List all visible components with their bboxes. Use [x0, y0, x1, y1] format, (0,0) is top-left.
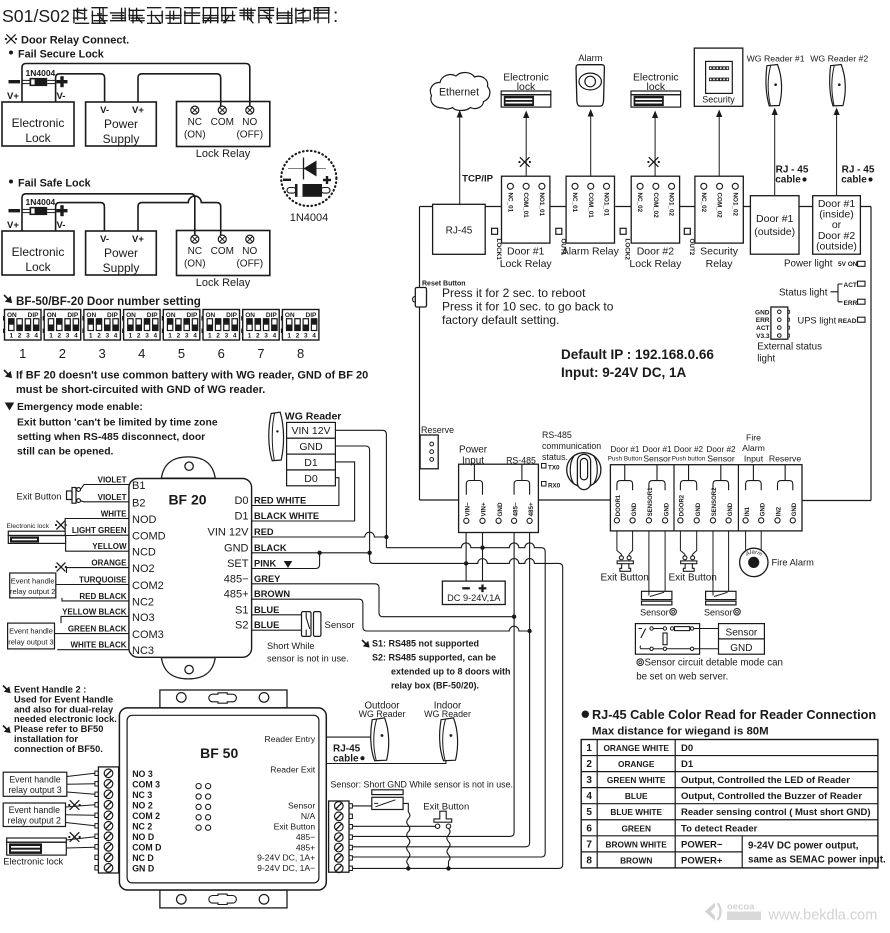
polarity minus sign — [9, 209, 21, 212]
svg-text:Alarm: Alarm — [578, 53, 602, 63]
svg-text:Electronic: Electronic — [12, 245, 65, 259]
svg-text:Lock Relay: Lock Relay — [629, 258, 682, 270]
wire 485+ brown — [252, 599, 530, 631]
svg-text:Fire: Fire — [746, 433, 761, 443]
svg-text:GREEN WHITE: GREEN WHITE — [607, 775, 666, 785]
RJ-45 cable color table — [581, 740, 878, 868]
electronic lock icon (BF50 side) — [7, 838, 67, 842]
svg-text:VIN−: VIN− — [465, 502, 472, 516]
relay terminal NC_02 — [701, 183, 707, 189]
svg-text:Sensor: Sensor — [726, 628, 758, 639]
svg-text:and also for dual-relay: and also for dual-relay — [14, 704, 114, 714]
svg-text:2: 2 — [256, 333, 260, 340]
svg-text:SET: SET — [227, 558, 249, 570]
svg-text:Emergency mode enable:: Emergency mode enable: — [17, 402, 143, 413]
svg-text:TX0: TX0 — [548, 465, 560, 472]
svg-text:NO D: NO D — [132, 832, 154, 842]
WG Reader terminal table — [287, 422, 336, 438]
RJ-45 box — [433, 204, 486, 254]
svg-text:RX0: RX0 — [548, 483, 561, 490]
svg-text:BROWN: BROWN — [254, 589, 290, 599]
svg-text:(ON): (ON) — [184, 259, 206, 270]
board indicator OUT2 — [684, 228, 690, 234]
lock relay box — [177, 102, 270, 147]
svg-text:Short While: Short While — [267, 641, 315, 651]
svg-text:D1: D1 — [234, 511, 248, 523]
svg-text:Alarm: Alarm — [742, 443, 765, 453]
junction dot SET jumper x BLACK — [317, 551, 321, 555]
svg-text:Door #2: Door #2 — [637, 246, 675, 258]
svg-text:V+: V+ — [132, 234, 144, 245]
485+ riser to BF50 — [352, 533, 529, 847]
svg-text:RJ-45 Cable Color Read for Rea: RJ-45 Cable Color Read for Reader Connec… — [592, 708, 876, 722]
svg-text:COM2: COM2 — [132, 580, 164, 592]
wire from relay to device — [590, 113, 592, 176]
wires lock to strip — [66, 837, 95, 840]
svg-text:4: 4 — [193, 333, 197, 340]
heading: Fail Secure Lock — [9, 51, 13, 55]
diode 1N4004 (inline) — [22, 208, 30, 210]
svg-text:NO: NO — [242, 246, 257, 257]
svg-text:GND: GND — [755, 309, 770, 316]
svg-text:1: 1 — [49, 333, 53, 340]
diode 1N4004 (inline) — [22, 79, 30, 81]
wire gnd pin down — [664, 531, 666, 592]
svg-text:DIP: DIP — [306, 312, 318, 319]
svg-text:Relay: Relay — [706, 258, 734, 270]
ethernet cloud — [430, 73, 490, 111]
svg-text:ORANGE: ORANGE — [618, 759, 655, 769]
svg-text:ON: ON — [86, 312, 96, 319]
power supply box — [86, 102, 157, 146]
svg-text:Fail Safe Lock: Fail Safe Lock — [18, 178, 92, 190]
sensor coil wire to ground rail — [403, 803, 408, 812]
heading: Door Relay Connect — [6, 34, 15, 43]
svg-text:NC 3: NC 3 — [132, 790, 152, 800]
svg-text:relay output 2: relay output 2 — [10, 587, 55, 596]
electronic lock icon (BF20 side) — [8, 531, 65, 535]
indoor WG reader icon — [440, 718, 458, 761]
1N4004 legend dotted circle — [281, 151, 336, 206]
svg-text:ON: ON — [7, 312, 17, 319]
svg-text:WG Reader: WG Reader — [285, 410, 342, 422]
svg-text:communication: communication — [542, 441, 601, 451]
wires output2 to strip — [66, 805, 95, 807]
reference mark above lock wires — [70, 832, 80, 842]
BF50 bottom mounting tab — [160, 890, 287, 908]
junction dot grey x 485- riser — [512, 615, 516, 619]
svg-text:1N4004: 1N4004 — [290, 212, 329, 224]
svg-text:relay box (BF-50/20).: relay box (BF-50/20). — [391, 681, 479, 691]
electronic lock icon #2 (door 2) — [631, 91, 681, 95]
svg-text:Sensor: Sensor — [704, 608, 733, 618]
svg-text:NCD: NCD — [132, 547, 156, 559]
svg-text:S2: RS485 supported, can be: S2: RS485 supported, can be — [372, 653, 496, 663]
svg-text:COM: COM — [211, 117, 234, 128]
Door #1 (outside) box — [750, 196, 799, 255]
svg-text:4: 4 — [233, 333, 237, 340]
svg-text:GREEN BLACK: GREEN BLACK — [68, 625, 127, 634]
svg-text:DIP: DIP — [186, 312, 198, 319]
svg-text:Security: Security — [700, 246, 739, 258]
svg-text:RS-485: RS-485 — [506, 456, 536, 466]
svg-text:GND: GND — [664, 502, 670, 516]
svg-text:DIP: DIP — [226, 312, 238, 319]
svg-text:Sensor: Sensor — [288, 801, 315, 811]
svg-text:485+: 485+ — [528, 502, 535, 517]
svg-text:UPS light: UPS light — [798, 316, 837, 326]
svg-text:COM: COM — [211, 246, 234, 257]
svg-text:YELLOW BLACK: YELLOW BLACK — [62, 607, 127, 616]
svg-text:2: 2 — [97, 333, 101, 340]
door sensor icon — [706, 591, 736, 599]
svg-text:485−: 485− — [224, 573, 249, 585]
exit button body — [681, 561, 697, 564]
svg-text:Output, Controlled the LED of: Output, Controlled the LED of Reader — [681, 775, 850, 786]
svg-text:(outside): (outside) — [816, 240, 857, 252]
svg-text:5V ON: 5V ON — [838, 261, 858, 268]
svg-text:485+: 485+ — [296, 842, 315, 852]
svg-text:COM 3: COM 3 — [132, 780, 160, 790]
svg-text:Power light: Power light — [784, 259, 833, 270]
svg-text:needed electronic lock.: needed electronic lock. — [14, 714, 117, 724]
RS-485 bracket wires — [514, 464, 530, 495]
wire VIN12V red + power rail to VIN+ and BF50 1A+ — [335, 430, 386, 547]
lock relay box — [177, 231, 270, 276]
svg-text:Output, Controlled the Buzzer: Output, Controlled the Buzzer of Reader — [681, 791, 862, 802]
note: S1/S2 RS485 support — [362, 640, 367, 645]
heading: Fail Safe Lock — [9, 180, 13, 184]
svg-text:RS-485: RS-485 — [542, 430, 572, 440]
svg-text:D1: D1 — [304, 457, 318, 469]
svg-text:V+: V+ — [132, 105, 144, 116]
exit button terminals — [619, 556, 623, 560]
reference mark above relay — [649, 157, 659, 167]
wire GND black + ground rail to VIN- and BF50 1A- — [335, 446, 562, 868]
svg-text:DIP: DIP — [147, 312, 159, 319]
reference mark above relay — [520, 157, 530, 167]
svg-text:B2: B2 — [132, 497, 145, 509]
polarity plus sign — [57, 80, 68, 83]
svg-text:ON: ON — [285, 312, 295, 319]
wire NC3 white black — [58, 648, 129, 651]
wire gnd pin down — [728, 531, 730, 592]
svg-text:VIN 12V: VIN 12V — [291, 425, 330, 437]
strip pin SENSOR1 — [646, 518, 651, 523]
door & sensor terminal strip — [610, 465, 802, 531]
note: Event Handle 2 text block — [3, 686, 8, 691]
svg-text:Sensor: Short GND While sensor: Sensor: Short GND While sensor is not in… — [331, 780, 514, 790]
svg-text:Used for Event Handle: Used for Event Handle — [14, 695, 113, 705]
strip pin GND — [694, 518, 699, 523]
svg-text:WG Reader #1: WG Reader #1 — [747, 54, 805, 64]
svg-text:SENSOR2: SENSOR2 — [712, 487, 718, 516]
svg-text:Fire Alarm: Fire Alarm — [772, 558, 815, 568]
svg-text:COM_02: COM_02 — [716, 193, 723, 219]
svg-text:GND: GND — [730, 643, 752, 654]
svg-text:1: 1 — [129, 333, 133, 340]
svg-text:2: 2 — [57, 333, 61, 340]
svg-text:8: 8 — [297, 346, 304, 361]
svg-text:(outside): (outside) — [754, 226, 795, 238]
wire gnd pin to exit button — [629, 531, 633, 556]
strip pin IN2 — [775, 518, 780, 523]
svg-text:installation for: installation for — [14, 734, 78, 744]
relay terminal NO screw — [246, 235, 254, 243]
svg-text:relay output 3: relay output 3 — [8, 638, 53, 647]
svg-text:ACT: ACT — [844, 282, 857, 289]
svg-text:COM_01: COM_01 — [587, 193, 594, 219]
board indicator OUT1 — [556, 228, 562, 234]
svg-text:Supply: Supply — [103, 261, 140, 275]
svg-text:NO1_02: NO1_02 — [731, 193, 738, 217]
strip pin VIN+ — [480, 518, 485, 523]
terminal pair bracket — [680, 465, 696, 491]
diode package drawing — [287, 188, 296, 194]
svg-text:7: 7 — [257, 346, 264, 361]
watermark logo — [705, 903, 715, 921]
svg-text:3: 3 — [264, 333, 268, 340]
svg-text:NO2: NO2 — [132, 563, 155, 575]
svg-text:BLUE: BLUE — [254, 620, 279, 630]
svg-text:GREY: GREY — [254, 574, 281, 584]
junction dot power rail x VIN+ — [480, 546, 484, 550]
terminal pair bracket — [649, 465, 665, 491]
svg-text:NO3: NO3 — [132, 612, 155, 624]
svg-text:6: 6 — [218, 346, 225, 361]
svg-text:COM 2: COM 2 — [132, 811, 160, 821]
svg-text:be set on web server.: be set on web server. — [636, 672, 728, 683]
VIN+ wire to DC source — [482, 533, 484, 582]
wire NC2 red black — [62, 598, 129, 601]
diode schematic symbol — [288, 168, 326, 170]
DIP switch block 1 — [5, 310, 42, 341]
svg-text:ON: ON — [245, 312, 255, 319]
svg-text:ORANGE: ORANGE — [91, 559, 127, 568]
strip pin GND — [496, 518, 501, 523]
svg-text:BLUE: BLUE — [625, 791, 648, 801]
svg-text:(OFF): (OFF) — [236, 259, 263, 270]
svg-text:Alarm Relay: Alarm Relay — [562, 246, 620, 258]
svg-text:Lock Relay: Lock Relay — [196, 148, 251, 160]
svg-text:PINK: PINK — [254, 559, 276, 569]
power input bracket wires — [466, 464, 482, 495]
heading: RJ-45 cable color read — [582, 711, 589, 718]
svg-text:RED: RED — [254, 527, 274, 537]
svg-text:GND: GND — [728, 502, 734, 516]
relay terminal COM screw — [218, 106, 226, 114]
external status light connector — [771, 307, 788, 339]
svg-text:ORANGE WHITE: ORANGE WHITE — [603, 743, 669, 753]
svg-text:Push button: Push button — [672, 456, 706, 463]
svg-text:1N4004: 1N4004 — [26, 197, 56, 207]
svg-text:Exit Button: Exit Button — [274, 822, 316, 832]
svg-text:Sensor: Sensor — [643, 454, 671, 464]
terminal pair bracket — [746, 465, 762, 491]
svg-text:OUT2: OUT2 — [688, 239, 695, 256]
svg-text:Security: Security — [702, 95, 735, 105]
BF50 controller body — [119, 708, 326, 890]
svg-text:1: 1 — [168, 333, 172, 340]
svg-text:VIN 12V: VIN 12V — [208, 527, 250, 539]
wire S2 blue — [252, 629, 302, 631]
RX0 indicator — [542, 482, 547, 487]
svg-text:still can be opened.: still can be opened. — [17, 447, 114, 458]
svg-text:Input: Input — [462, 456, 484, 467]
svg-text:LOCK1: LOCK1 — [495, 239, 502, 261]
svg-text:V3.3: V3.3 — [756, 333, 770, 340]
svg-text:ON: ON — [206, 312, 216, 319]
sensor/gnd mini table — [719, 624, 765, 655]
svg-text:V+: V+ — [7, 220, 19, 231]
svg-text:NO 2: NO 2 — [132, 801, 153, 811]
svg-text:WG Reader: WG Reader — [359, 709, 406, 719]
svg-text:DIP: DIP — [67, 312, 79, 319]
svg-text:N/A: N/A — [301, 811, 316, 821]
wire from relay to device — [718, 114, 720, 177]
electronic lock box — [2, 231, 74, 275]
svg-text:Electronic lock: Electronic lock — [7, 523, 50, 530]
svg-text:9-24V DC, 1A+: 9-24V DC, 1A+ — [257, 853, 315, 863]
svg-text:NO1_02: NO1_02 — [668, 193, 675, 217]
svg-text:(OFF): (OFF) — [236, 130, 263, 141]
BF20 bottom mounting hole — [185, 665, 193, 673]
svg-text:BLUE: BLUE — [254, 605, 279, 615]
wire S1 blue — [252, 614, 302, 616]
relay terminal NO1_01 — [604, 183, 610, 189]
svg-text:NO: NO — [242, 117, 257, 128]
svg-text:V-: V- — [57, 91, 66, 102]
svg-text:3: 3 — [185, 333, 189, 340]
svg-text:D0: D0 — [681, 743, 693, 754]
wire: diode node to power supply V- — [56, 74, 105, 102]
junction dot ground rail x VIN- — [464, 561, 468, 565]
svg-text:Max distance for wiegand is 80: Max distance for wiegand is 80M — [592, 726, 769, 738]
svg-text:GREEN: GREEN — [621, 823, 651, 833]
strip pin DOOR2 — [678, 518, 683, 523]
polarity minus sign — [9, 80, 21, 83]
svg-text:Exit Button: Exit Button — [601, 573, 649, 584]
VIN- wire to DC source — [465, 533, 467, 582]
svg-text:IN2: IN2 — [777, 506, 783, 516]
svg-text:Event handle: Event handle — [11, 577, 55, 586]
strip pin DOOR1 — [614, 518, 619, 523]
svg-text:4: 4 — [34, 333, 38, 340]
svg-text:Reader Exit: Reader Exit — [270, 765, 316, 775]
svg-text:sensor is not in use.: sensor is not in use. — [267, 654, 349, 664]
wire BF50 sensor terminal to sensor — [352, 805, 371, 807]
exit button coil wire to ground rail — [447, 828, 450, 867]
svg-text:WHITE BLACK: WHITE BLACK — [71, 641, 127, 650]
wire COM2 turquoise — [56, 584, 129, 586]
key switch (RS-485 status) — [567, 453, 601, 487]
note: Emergency mode enable — [5, 403, 15, 411]
reference mark near NO2 — [57, 563, 66, 572]
wire NO3 yellow black — [61, 616, 129, 623]
svg-text:4: 4 — [74, 333, 78, 340]
svg-text:Fail Secure Lock: Fail Secure Lock — [18, 49, 105, 61]
relay terminal NO1_02 — [669, 183, 675, 189]
BF20 controller body — [129, 479, 252, 658]
svg-text:lock: lock — [517, 82, 536, 93]
svg-text:GND: GND — [299, 441, 323, 453]
svg-text:Door #1: Door #1 — [756, 213, 794, 225]
electronic lock box — [2, 102, 74, 146]
WG reader icon (near BF20) — [269, 412, 284, 461]
svg-text:B1: B1 — [132, 480, 145, 492]
security keypad box — [694, 48, 743, 106]
svg-text:BLACK: BLACK — [254, 543, 287, 553]
svg-text:(ON): (ON) — [184, 130, 206, 141]
svg-text:lock: lock — [647, 82, 666, 93]
svg-text:RED BLACK: RED BLACK — [79, 592, 126, 601]
door sensor icon — [642, 591, 672, 599]
relay terminal NC screw — [191, 235, 199, 243]
relay terminal NO1_01 — [539, 183, 545, 189]
exit button body — [617, 561, 633, 564]
heading: BF-50/BF-20 Door number setting — [4, 295, 9, 300]
svg-text:Lock: Lock — [25, 131, 51, 145]
svg-text:TURQUOISE: TURQUOISE — [79, 576, 127, 585]
svg-text:NO 3: NO 3 — [132, 769, 153, 779]
svg-text:relay output 3: relay output 3 — [8, 785, 61, 795]
svg-text:Lock Relay: Lock Relay — [500, 258, 553, 270]
wire NOD white — [65, 519, 129, 532]
svg-text:2: 2 — [586, 759, 592, 770]
svg-text:GND: GND — [760, 502, 766, 516]
wire: power supply V+ to relay COM with hop over NC wire — [138, 196, 221, 235]
relay terminal COM_02 — [717, 183, 723, 189]
WG reader #1 icon — [766, 65, 782, 106]
DIP switch block 7 — [243, 310, 280, 341]
svg-text:NC D: NC D — [132, 853, 154, 863]
wire reader entry to outdoor reader — [326, 736, 370, 738]
relay terminal COM screw — [218, 235, 226, 243]
svg-text:must be short-circuited with G: must be short-circuited with GND of WG r… — [16, 384, 265, 396]
svg-text:Sensor circuit detable mode ca: Sensor circuit detable mode can — [645, 658, 783, 669]
wire B2 violet — [81, 501, 129, 502]
svg-text:RED WHITE: RED WHITE — [254, 496, 306, 506]
BF20 top mounting hole — [185, 462, 193, 470]
svg-text:Power: Power — [104, 117, 138, 131]
wire NCD yellow — [66, 543, 129, 551]
svg-text:Electronic: Electronic — [12, 116, 65, 130]
junction dot exit button coil x ground rail — [446, 866, 450, 870]
485- riser to BF50 — [352, 533, 514, 837]
svg-text:NO1_01: NO1_01 — [603, 193, 610, 217]
wire COMD light green — [66, 534, 129, 536]
svg-text:DIP: DIP — [266, 312, 278, 319]
svg-text:Exit Button: Exit Button — [669, 573, 717, 584]
svg-text:GND: GND — [497, 502, 504, 516]
strip pin GND — [630, 518, 635, 523]
svg-text:V-: V- — [57, 220, 66, 231]
strip pin GND — [726, 518, 731, 523]
svg-text:cable: cable — [775, 175, 801, 186]
svg-text:WG Reader #2: WG Reader #2 — [810, 54, 868, 64]
wire: lock V+ to relay NC (top rail) — [22, 194, 195, 235]
svg-text:cable: cable — [333, 754, 359, 765]
svg-text:Exit button 'can't be limited: Exit button 'can't be limited by time zo… — [17, 418, 218, 429]
DIP switch block 6 — [203, 310, 240, 341]
svg-text:4: 4 — [586, 791, 592, 802]
svg-text:Input: 9-24V DC, 1A: Input: 9-24V DC, 1A — [561, 365, 687, 380]
svg-text:2: 2 — [177, 333, 181, 340]
svg-text:Door #1: Door #1 — [507, 246, 545, 258]
svg-text:Exit Button: Exit Button — [17, 492, 62, 502]
wire: power supply V+ to relay COM — [138, 74, 221, 106]
wire SET pink jumper to GND — [252, 553, 320, 569]
